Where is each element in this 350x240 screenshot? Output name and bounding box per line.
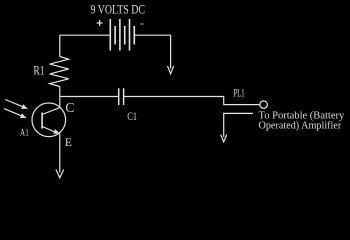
light arrow 1 bbox=[5, 100, 27, 110]
light arrow 2 bbox=[4, 109, 26, 119]
capacitor C1 right plate bbox=[123, 88, 125, 105]
plug PL1 tip circle bbox=[260, 101, 267, 108]
svg-text:R1: R1 bbox=[33, 64, 44, 78]
transistor A1 collector diagonal bbox=[42, 108, 60, 115]
transistor A1 emitter arrowhead bbox=[53, 129, 59, 134]
svg-text:C: C bbox=[65, 100, 74, 115]
wire left rail down to R1 bbox=[59, 35, 61, 56]
svg-text:E: E bbox=[65, 137, 72, 149]
ground arrow at battery- bbox=[168, 66, 174, 74]
wire battery- to right drop bbox=[134, 35, 170, 68]
capacitor C1 left plate bbox=[118, 88, 120, 105]
svg-text:PL1: PL1 bbox=[233, 87, 244, 99]
wire C1 to PL1 bbox=[124, 97, 260, 105]
svg-text:Operated) Amplifier: Operated) Amplifier bbox=[259, 121, 342, 132]
svg-text:A1: A1 bbox=[20, 129, 29, 139]
transistor A1 emitter diagonal bbox=[42, 127, 60, 135]
node: collector junction wire to C1 bbox=[60, 96, 119, 98]
battery B1 plus sign bbox=[97, 20, 103, 26]
plug PL1 sleeve lead bbox=[224, 113, 253, 137]
svg-text:C1: C1 bbox=[127, 109, 137, 123]
ground arrow at PL1 sleeve bbox=[221, 135, 227, 142]
ground arrow at emitter bbox=[56, 170, 64, 178]
battery B1 minus sign bbox=[141, 23, 144, 25]
resistor R1 zigzag bbox=[50, 57, 69, 87]
battery B1 plates bbox=[110, 19, 134, 51]
transistor A1 base bar bbox=[41, 113, 43, 129]
emitter wire down bbox=[59, 134, 61, 173]
transistor A1 circle bbox=[32, 103, 66, 137]
wire battery+ to left rail bbox=[60, 34, 111, 36]
wire R1 to collector node bbox=[59, 87, 61, 108]
svg-text:9 VOLTS DC: 9 VOLTS DC bbox=[91, 3, 146, 17]
